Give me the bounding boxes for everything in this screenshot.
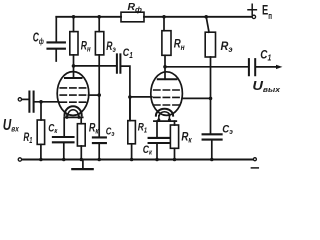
wire grid tube1	[34, 101, 59, 103]
svg-text:Cф: Cф	[33, 30, 44, 46]
wire Rэ1 screen drop	[98, 55, 100, 137]
tube Л1 grid 2	[60, 94, 85, 96]
resistor Rэ2	[206, 17, 209, 32]
tube Л2 envelope	[151, 72, 183, 116]
resistor Rк2	[174, 121, 176, 125]
wire bottom rail	[22, 159, 254, 161]
tube Л2 cathode legs	[159, 116, 170, 121]
ground	[82, 160, 84, 169]
terminal +Eп	[252, 15, 255, 18]
svg-text:R1: R1	[23, 132, 32, 145]
resistor R1 stage1	[40, 102, 42, 120]
svg-text:Rэ: Rэ	[221, 41, 234, 54]
resistor Rн1	[73, 17, 75, 32]
terminal bottom right	[253, 158, 256, 161]
tube Л2 anode plate	[158, 78, 177, 80]
svg-text:Cэ: Cэ	[106, 125, 115, 138]
svg-text:Uвх: Uвх	[3, 117, 20, 134]
tube Л1 cathode arch	[65, 106, 82, 115]
tube Л1 anode plate	[65, 77, 82, 79]
wire cathode bar tube2	[154, 120, 176, 122]
tube Л2 grid 2	[154, 96, 180, 98]
resistor Rф	[121, 12, 144, 22]
terminal bottom left	[18, 158, 21, 161]
resistor Rн2	[163, 17, 165, 31]
tube Л1 grid 3	[60, 101, 85, 103]
wire grid tube2	[130, 96, 152, 98]
wire anode1 to C1	[74, 65, 117, 67]
tube Л2 cathode arch	[156, 109, 173, 116]
tube Л1 grid 1	[60, 87, 85, 89]
wire input	[22, 98, 30, 100]
capacitor C1 interstage	[117, 54, 121, 72]
resistor Rэ1	[98, 17, 100, 32]
capacitor C1 input	[29, 92, 33, 112]
node dot Rэ2 at rail	[204, 15, 208, 19]
svg-text:R1: R1	[138, 121, 147, 134]
capacitor Ск1	[63, 117, 65, 136]
node dot screen1	[97, 93, 101, 97]
node dot grid2	[128, 95, 132, 99]
tube Л2 grid 3	[154, 104, 180, 106]
capacitor Ск2	[156, 121, 158, 137]
node dot anode2	[163, 65, 167, 69]
svg-text:Cк: Cк	[143, 144, 153, 157]
node dot Rн2 at rail	[162, 15, 166, 19]
svg-text:Rк: Rк	[181, 130, 192, 145]
capacitor Сф	[48, 42, 65, 48]
wire C1 to grid2 corner	[121, 66, 130, 121]
node dot anode1	[72, 64, 76, 68]
wire Сф lead from rail	[55, 17, 57, 42]
capacitor Сэ2	[203, 134, 222, 139]
capacitor Сэ1	[93, 137, 106, 143]
svg-text:Rэ: Rэ	[106, 41, 116, 54]
tube Л2 grid 1	[154, 89, 180, 91]
node dot screen2	[209, 97, 213, 101]
svg-text:Rф: Rф	[128, 2, 143, 14]
node dot Rэ1 at rail	[97, 15, 101, 19]
wire anode lead tube1	[73, 55, 75, 78]
svg-text:C1: C1	[260, 50, 271, 63]
svg-text:Rк: Rк	[89, 123, 99, 136]
svg-text:Rн: Rн	[174, 39, 185, 52]
wire top rail right segment	[144, 16, 252, 18]
wire cathode bar tube1	[65, 116, 83, 118]
svg-text:Cэ: Cэ	[222, 123, 233, 136]
wire Rэ2 screen drop	[210, 57, 212, 134]
capacitor C1 output	[249, 59, 255, 75]
tube Л1 envelope	[57, 72, 89, 116]
wire screen2	[182, 97, 210, 99]
tube Л1 cathode legs	[67, 115, 79, 118]
resistor R1 stage2	[129, 97, 131, 121]
minus sign	[251, 167, 258, 169]
wire anode2 to C1 output	[165, 66, 249, 68]
svg-text:Cк: Cк	[48, 122, 58, 135]
svg-text:Rн: Rн	[81, 40, 91, 53]
resistor Rк1	[80, 117, 82, 123]
node dot Rн1 at rail	[72, 15, 76, 19]
wire anode lead tube2	[164, 55, 166, 79]
wire output with arrow	[255, 66, 276, 68]
svg-text:Uвых: Uвых	[252, 78, 280, 94]
svg-text:Eп: Eп	[262, 3, 272, 21]
node dot R1 grid1	[39, 100, 43, 104]
wire Сф bottom stub	[55, 50, 57, 61]
wire screen1 to Rэ1	[89, 94, 100, 96]
terminal input	[18, 98, 21, 101]
svg-text:C1: C1	[123, 47, 133, 60]
wire top rail left segment	[56, 16, 121, 18]
